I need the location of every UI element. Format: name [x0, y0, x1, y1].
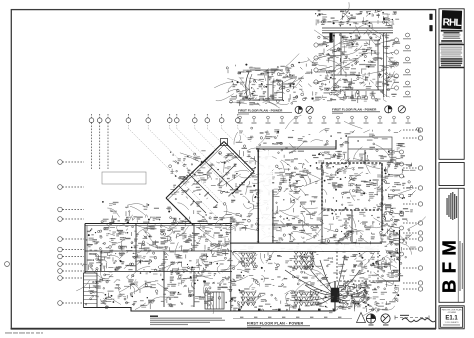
- engineer disclaimer text block: [441, 47, 463, 67]
- RHL engineering logo: [441, 10, 462, 29]
- detail A right keynotes clutter: [279, 59, 321, 101]
- detail B dimension text clutter: [315, 2, 399, 35]
- panel home-run conduit cluster: [285, 255, 365, 305]
- issue stamp marks left of title block: [429, 14, 432, 32]
- east rooms circuit clutter: [335, 229, 406, 316]
- detail A clutter: [239, 54, 304, 109]
- dining area circuit clutter: [221, 244, 339, 313]
- svg-text:FIRST FLOOR PLAN - POWER: FIRST FLOOR PLAN - POWER: [332, 108, 377, 112]
- detail plan B second symbol: [398, 106, 405, 113]
- revision delta triangle: [357, 313, 366, 323]
- margin registration mark: [5, 262, 10, 267]
- detail A left keynotes clutter: [214, 65, 247, 104]
- stair block center with treads: [205, 292, 224, 309]
- column grid bubbles top row with dashed leaders: [89, 114, 240, 169]
- kitchen area circuit clutter: [243, 145, 400, 245]
- storage room hatched walls (lower right): [337, 243, 378, 281]
- stair block lower left with treads: [84, 273, 98, 308]
- detail plan A second symbol: [306, 106, 313, 113]
- column bases along south wall: [238, 309, 336, 312]
- graphic scale bar: [395, 315, 429, 320]
- detail B clutter: [308, 23, 401, 103]
- sheet number box E1.1: [441, 307, 463, 327]
- detail plan A title: [238, 108, 292, 114]
- svg-text:1 OF 6 SHEETS: 1 OF 6 SHEETS: [445, 322, 460, 324]
- RHL company name and address lines: [441, 30, 463, 44]
- upper plan edge labels clutter: [234, 115, 420, 151]
- drawn/checked vertical text beside BFM: [459, 241, 463, 291]
- row grid bubbles left column with dashed leaders: [58, 160, 84, 306]
- main plan exterior walls: [84, 140, 400, 311]
- wing area receptacle and circuit clutter: [169, 150, 271, 238]
- plot stamp text: [5, 332, 43, 333]
- detail plan B exterior wall band: [322, 28, 393, 33]
- detail plan A north arrow: [295, 106, 302, 113]
- grid bubbles right column with dashed leaders: [403, 128, 423, 291]
- east-west corridor: [230, 243, 382, 251]
- west rooms circuit clutter: [76, 215, 243, 314]
- project info vertical text: [446, 188, 458, 302]
- wing room labels (diagonal text): [185, 167, 233, 208]
- keynote legend row below detail plans: [238, 116, 411, 123]
- diagonal wing exterior walls: [166, 139, 254, 226]
- detail plan B title: [332, 108, 380, 114]
- right edge keynote clutter: [373, 150, 425, 264]
- detail plan B dimension line: [318, 20, 393, 24]
- plan check signature squiggle: [402, 318, 435, 322]
- key plan / graphic scale circle: [381, 314, 390, 326]
- main plan title FIRST FLOOR PLAN - POWER: [247, 321, 310, 328]
- north arrow symbol: [366, 314, 375, 326]
- detail plan B service bar: [329, 33, 332, 43]
- wing interior partitions: [179, 152, 236, 213]
- svg-text:FIRST FLOOR PLAN - POWER: FIRST FLOOR PLAN - POWER: [238, 108, 283, 112]
- detail plan B receptacle row: [343, 91, 374, 99]
- svg-text:- POWER: - POWER: [447, 312, 457, 314]
- entry area labels clutter: [102, 201, 171, 225]
- general notes text block: [150, 316, 225, 326]
- svg-text:FIRST FLOOR PLAN - POWER: FIRST FLOOR PLAN - POWER: [247, 321, 304, 325]
- detail plan B north arrow: [385, 106, 392, 113]
- keynote circle column right edge of plan: [388, 150, 404, 256]
- svg-text:E1.1: E1.1: [445, 316, 458, 322]
- detail plan A walls: [244, 70, 297, 100]
- north-south corridor: [259, 150, 273, 243]
- booth seating cluster lower-left: [241, 292, 256, 306]
- booth seating cluster lower-right: [294, 292, 319, 306]
- svg-text:RHL: RHL: [442, 17, 461, 29]
- sidewalk curb line: [233, 317, 352, 319]
- trash enclosure: [348, 137, 392, 161]
- booth seating cluster upper-left: [241, 253, 256, 267]
- detail plan B walls: [334, 33, 386, 97]
- entry canopy outline: [102, 172, 146, 184]
- title block outer boxes: [439, 9, 464, 329]
- booth seating cluster upper-right: [294, 251, 314, 270]
- panel area dense clutter: [336, 282, 377, 313]
- svg-text:BFM: BFM: [438, 239, 459, 293]
- interior partition walls: [85, 149, 382, 311]
- detail plan B keynote circles: [314, 33, 411, 97]
- north wall devices clutter: [101, 205, 235, 227]
- electric room hatched walls (upper right): [322, 163, 382, 210]
